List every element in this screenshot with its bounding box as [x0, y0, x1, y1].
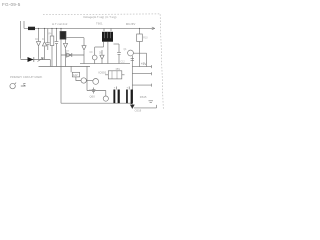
diode D601 — [28, 57, 34, 62]
junction dots on top bus — [38, 28, 140, 29]
arrow output top right — [152, 27, 155, 30]
transformer secondary wires — [104, 42, 108, 64]
capacitor C616 electrolytic — [128, 87, 130, 90]
wire lower horizontal — [87, 90, 106, 92]
wire drop to mid bus — [49, 60, 51, 67]
wire output stub 1 — [132, 65, 151, 68]
transistor Q611 — [128, 50, 134, 56]
switch S601 — [38, 58, 44, 62]
svg-text:PRIMARY CIRCUIT MARK: PRIMARY CIRCUIT MARK — [10, 75, 42, 79]
svg-text:IC601: IC601 — [99, 70, 107, 74]
wire bottom bus — [61, 102, 132, 104]
wire ic pins — [105, 74, 125, 76]
diode D602 — [36, 42, 40, 46]
connector J611 — [131, 59, 134, 61]
ic box IC601 — [108, 71, 122, 79]
svg-text:H.T coil 2n2: H.T coil 2n2 — [52, 22, 68, 26]
legend plug symbol — [10, 83, 15, 88]
wire below C603 — [60, 40, 62, 104]
svg-text:C12: C12 — [121, 61, 126, 63]
diode D607 — [67, 53, 72, 57]
wire lower-left horizontal — [21, 59, 51, 61]
wire branch d603 — [44, 28, 46, 59]
oscillator box B601 — [72, 72, 79, 77]
transistor Q603 — [93, 79, 99, 85]
diode D605 — [82, 46, 86, 50]
svg-text:Voltage(H.T.sig) (C.T.sig): Voltage(H.T.sig) (C.T.sig) — [83, 15, 117, 19]
wire AC input left — [20, 21, 22, 59]
capacitor C605 — [117, 44, 121, 64]
ground mark — [149, 101, 154, 103]
svg-text:Q60: Q60 — [90, 95, 96, 99]
diode D604 — [65, 40, 67, 67]
resistor R601 — [51, 28, 53, 66]
wire AC input right — [23, 21, 25, 28]
capacitor C602 — [55, 28, 59, 66]
wire mid vertical — [86, 66, 88, 91]
transistor Q601 secondary — [94, 47, 96, 64]
wire branch D605 — [83, 38, 85, 64]
capacitor C601 — [46, 28, 50, 50]
wire right rail — [131, 56, 133, 105]
transistor Q602 — [81, 78, 86, 83]
diode D611 — [130, 103, 134, 108]
transformer T601 primary top wires — [104, 28, 111, 31]
svg-text:DC-5V: DC-5V — [126, 22, 136, 26]
wire bottom right — [134, 105, 157, 108]
dashed enclosure border top — [43, 13, 160, 16]
legend arrow symbol — [21, 83, 26, 86]
transformer T601 core block — [102, 32, 113, 42]
fuse F601 — [28, 27, 35, 30]
wire mid bus left — [39, 66, 91, 68]
diode D606 — [101, 50, 103, 64]
wire branch d602 — [38, 28, 40, 59]
svg-text:R615: R615 — [140, 95, 147, 99]
wire output stub 3 — [132, 84, 151, 87]
wire mid bus right — [80, 63, 130, 65]
dashed enclosure border right — [160, 14, 163, 110]
capacitor C610 — [92, 88, 96, 94]
svg-text:±5V: ±5V — [116, 67, 121, 71]
svg-text:C618: C618 — [135, 109, 142, 113]
wire tap y55 — [61, 54, 84, 56]
wire top bus — [24, 27, 155, 29]
svg-text:R10: R10 — [143, 38, 148, 40]
svg-text:FG-09-5: FG-09-5 — [2, 2, 21, 7]
wire to box — [71, 66, 81, 81]
wire output stub 2 — [132, 72, 151, 75]
wire link to D605 — [66, 37, 84, 39]
transistor Q604 — [103, 96, 108, 101]
resistor R611 — [139, 28, 141, 66]
capacitor C615 electrolytic — [116, 87, 118, 90]
svg-text:T601: T601 — [96, 22, 103, 26]
svg-text:12V: 12V — [73, 73, 78, 77]
diode D603 — [42, 42, 46, 46]
capacitor C603 electrolytic — [60, 28, 62, 31]
svg-text:+5V: +5V — [141, 62, 148, 66]
